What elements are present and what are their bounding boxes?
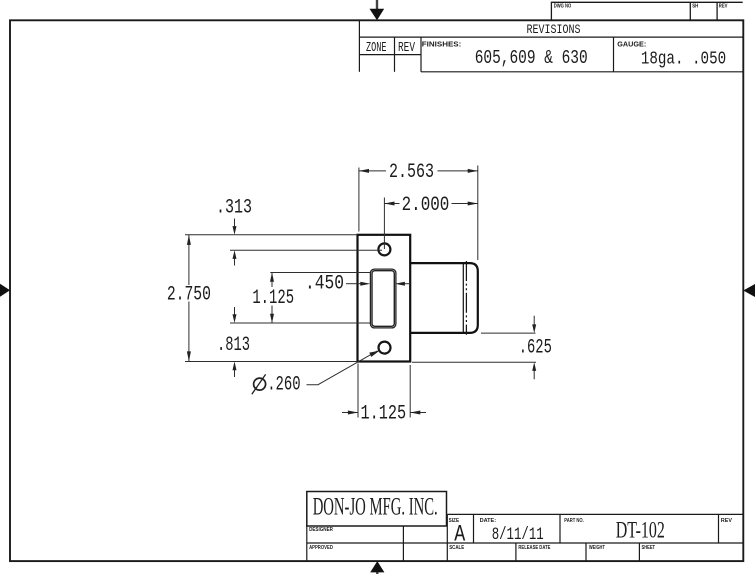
arrow 450 right <box>395 282 405 286</box>
dim 1.125 latch vertical <box>271 273 273 288</box>
svg-text:SH: SH <box>692 4 698 10</box>
arrow 2.000 right <box>468 202 478 206</box>
arrow latch 1.125 top <box>270 273 274 282</box>
svg-text:.813: .813 <box>217 334 250 357</box>
svg-text:REV: REV <box>719 4 728 10</box>
svg-text:2.563: 2.563 <box>389 161 434 184</box>
svg-text:.313: .313 <box>216 197 252 220</box>
revisions block grid <box>359 20 743 72</box>
arrow 450 left <box>360 282 370 286</box>
arrowheads <box>187 169 536 415</box>
latch opening outer <box>370 269 396 328</box>
svg-text:DT-102: DT-102 <box>616 518 665 543</box>
arrow 625 upper <box>532 324 536 333</box>
ext line lip bottom right <box>481 332 536 334</box>
arrow leader 260 <box>369 351 379 357</box>
ext line hole vertical <box>383 198 385 250</box>
svg-text:WEIGHT: WEIGHT <box>589 545 605 551</box>
dim 625 arrow tails <box>533 316 535 325</box>
ext line 2.563 left <box>358 168 360 232</box>
svg-text:2.000: 2.000 <box>402 194 450 217</box>
latch opening inner <box>372 271 394 327</box>
svg-text:.450: .450 <box>305 273 344 296</box>
arrow 2.563 left <box>359 169 369 173</box>
dim line 2.750 <box>188 235 190 285</box>
svg-text:A: A <box>454 522 465 548</box>
svg-text:PART NO.: PART NO. <box>564 518 584 524</box>
centering mark right <box>743 284 755 297</box>
svg-text:8/11/11: 8/11/11 <box>492 525 544 545</box>
svg-text:RELEASE DATE: RELEASE DATE <box>518 545 550 551</box>
svg-text:DESIGNER: DESIGNER <box>309 527 333 533</box>
arrow 313 lower <box>233 250 237 259</box>
centering mark top <box>370 0 385 20</box>
arrow 2.750 top <box>187 235 191 245</box>
ext line latch bottom <box>230 322 370 324</box>
svg-text:2.750: 2.750 <box>167 284 211 307</box>
ext line bottom 1.125 left <box>357 364 359 418</box>
svg-text:SHEET: SHEET <box>642 545 656 551</box>
svg-text:REV: REV <box>721 518 732 524</box>
ext line latch top <box>270 272 370 274</box>
thin lines style <box>185 166 536 418</box>
svg-text:1.125: 1.125 <box>252 287 294 310</box>
svg-text:REV: REV <box>398 40 415 56</box>
svg-text:SCALE: SCALE <box>449 545 464 551</box>
arrow 2.563 right <box>468 169 478 173</box>
arrow 313 upper <box>233 226 237 235</box>
svg-text:DON-JO MFG. INC.: DON-JO MFG. INC. <box>313 494 438 521</box>
ext line top hole center <box>230 249 382 251</box>
svg-text:.625: .625 <box>519 337 552 360</box>
ext line plate bottom left <box>185 361 358 363</box>
dim 450 left tail <box>346 283 362 285</box>
arrow latch 1.125 bottom <box>270 314 274 323</box>
title block grid <box>307 514 744 561</box>
svg-text:REVISIONS: REVISIONS <box>527 23 581 37</box>
svg-text:18ga. .050: 18ga. .050 <box>641 49 726 70</box>
arrow 625 lower <box>532 362 536 371</box>
dim 313 arrow tails <box>234 219 236 228</box>
company box DON-JO <box>307 492 447 527</box>
faceplate outline <box>358 235 411 362</box>
svg-text:605,609 & 630: 605,609 & 630 <box>475 47 588 69</box>
arrow bottom 1.125 left <box>348 411 358 415</box>
ext line plate top left <box>185 234 358 236</box>
svg-text:.260: .260 <box>267 374 300 397</box>
svg-text:APPROVED: APPROVED <box>309 545 333 551</box>
top strip DWG NO / SH / REV <box>551 2 742 20</box>
svg-text:GAUGE:: GAUGE: <box>617 41 646 48</box>
dim 450 right tail <box>404 283 410 285</box>
leader dia 260 <box>307 351 378 385</box>
screw hole top <box>378 243 390 255</box>
dim symbol diameter <box>252 374 266 394</box>
lip bend tangent line <box>462 264 464 333</box>
svg-text:DATE:: DATE: <box>480 518 497 524</box>
arrow 2.000 left <box>384 202 394 206</box>
dim line 2.563 <box>359 170 386 172</box>
ext line right end vertical <box>477 166 479 261</box>
arrow 813 upper <box>233 314 237 323</box>
arrow 813 lower <box>233 362 237 371</box>
arrow bottom 1.125 right <box>410 411 420 415</box>
svg-text:FINISHES:: FINISHES: <box>422 41 462 48</box>
svg-text:1.125: 1.125 <box>360 402 406 425</box>
ext line bottom 1.125 right <box>409 365 411 418</box>
centering mark bottom <box>370 561 384 574</box>
svg-text:DWG NO: DWG NO <box>554 4 572 10</box>
ext line plate bottom right <box>412 361 536 363</box>
dim line bottom 1.125 tails <box>342 412 358 414</box>
lip outline <box>410 263 478 333</box>
svg-text:ZONE: ZONE <box>366 40 387 56</box>
dim 813 arrow tails <box>234 307 236 315</box>
arrow 2.750 bottom <box>187 351 191 361</box>
screw hole bottom <box>379 342 391 354</box>
centering mark left <box>0 284 10 297</box>
dim line 2.000 <box>384 203 399 205</box>
lip center line <box>465 261 467 335</box>
